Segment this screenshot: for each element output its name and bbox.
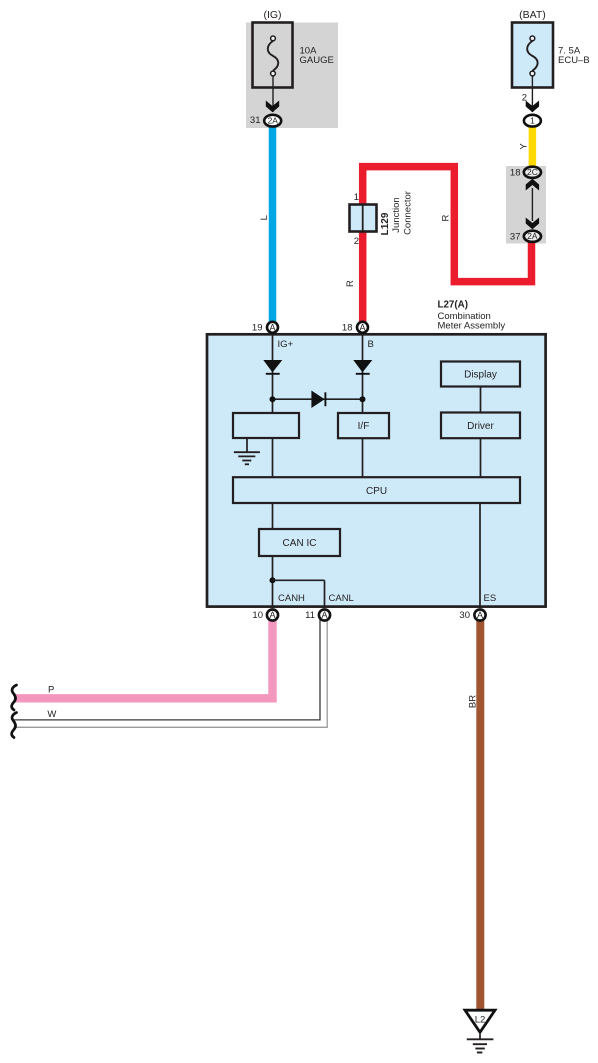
svg-text:A: A bbox=[321, 610, 327, 620]
svg-text:2: 2 bbox=[354, 236, 359, 247]
svg-text:A: A bbox=[359, 322, 365, 332]
svg-text:Display: Display bbox=[464, 370, 497, 381]
svg-text:2C: 2C bbox=[527, 167, 538, 177]
svg-text:ECU–B: ECU–B bbox=[558, 55, 590, 66]
svg-text:BR: BR bbox=[467, 695, 478, 708]
svg-text:L129: L129 bbox=[380, 212, 391, 235]
svg-text:L27(A): L27(A) bbox=[438, 300, 468, 311]
svg-text:R: R bbox=[441, 215, 452, 222]
svg-text:L2: L2 bbox=[475, 1014, 486, 1025]
svg-text:Meter Assembly: Meter Assembly bbox=[438, 320, 506, 331]
svg-text:R: R bbox=[345, 280, 356, 287]
svg-text:Driver: Driver bbox=[467, 421, 494, 432]
svg-text:18: 18 bbox=[510, 168, 521, 179]
svg-text:30: 30 bbox=[459, 610, 470, 621]
svg-text:(BAT): (BAT) bbox=[519, 9, 546, 21]
svg-text:CAN IC: CAN IC bbox=[283, 538, 317, 549]
svg-text:CPU: CPU bbox=[366, 486, 387, 497]
svg-text:CANH: CANH bbox=[278, 593, 305, 604]
svg-text:31: 31 bbox=[250, 115, 261, 126]
svg-text:GAUGE: GAUGE bbox=[300, 55, 334, 66]
svg-text:IG+: IG+ bbox=[278, 339, 294, 350]
svg-text:L: L bbox=[259, 215, 270, 220]
svg-text:P: P bbox=[48, 685, 54, 696]
svg-text:A: A bbox=[477, 610, 483, 620]
svg-text:18: 18 bbox=[342, 323, 353, 334]
svg-text:A: A bbox=[269, 610, 275, 620]
svg-text:10: 10 bbox=[252, 610, 263, 621]
svg-text:Connector: Connector bbox=[402, 191, 413, 235]
svg-text:W: W bbox=[47, 709, 56, 720]
svg-text:ES: ES bbox=[484, 593, 497, 604]
svg-text:19: 19 bbox=[252, 323, 263, 334]
svg-text:1: 1 bbox=[530, 116, 535, 126]
svg-text:(IG): (IG) bbox=[263, 9, 281, 21]
svg-text:CANL: CANL bbox=[329, 593, 354, 604]
svg-text:Y: Y bbox=[518, 143, 529, 150]
svg-text:37: 37 bbox=[510, 232, 521, 243]
svg-text:Junction: Junction bbox=[391, 197, 402, 232]
svg-text:1: 1 bbox=[354, 192, 359, 203]
svg-text:2A: 2A bbox=[268, 116, 279, 126]
svg-text:I/F: I/F bbox=[358, 421, 370, 432]
svg-text:11: 11 bbox=[305, 610, 315, 621]
svg-text:A: A bbox=[269, 322, 275, 332]
svg-text:B: B bbox=[368, 339, 374, 350]
svg-text:2A: 2A bbox=[527, 231, 538, 241]
